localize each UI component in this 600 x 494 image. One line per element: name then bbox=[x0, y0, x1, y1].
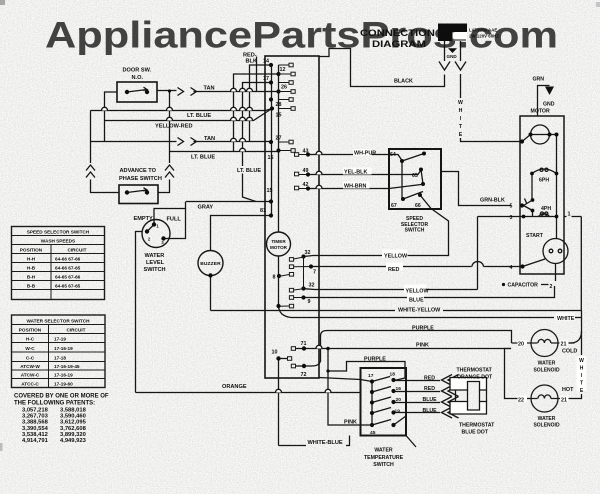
svg-text:21: 21 bbox=[561, 341, 567, 347]
svg-text:CIRCUIT: CIRCUIT bbox=[66, 328, 85, 333]
svg-text:22: 22 bbox=[518, 397, 524, 403]
svg-text:21: 21 bbox=[561, 397, 567, 403]
svg-text:42: 42 bbox=[303, 182, 309, 188]
svg-text:PURPLE: PURPLE bbox=[364, 356, 386, 362]
svg-text:10: 10 bbox=[272, 349, 278, 355]
svg-text:17-16-19: 17-16-19 bbox=[54, 373, 73, 378]
svg-text:3,762,608: 3,762,608 bbox=[60, 426, 87, 432]
svg-text:3,388,568: 3,388,568 bbox=[22, 420, 49, 426]
svg-text:H-H: H-H bbox=[27, 257, 36, 262]
svg-text:H: H bbox=[580, 366, 584, 372]
svg-text:64-66 67-66: 64-66 67-66 bbox=[55, 257, 81, 262]
svg-text:64-66 67-65: 64-66 67-65 bbox=[55, 266, 81, 271]
svg-text:GRAY: GRAY bbox=[198, 205, 214, 211]
svg-text:WASH SPEEDS: WASH SPEEDS bbox=[41, 239, 75, 244]
svg-text:PINK: PINK bbox=[416, 342, 429, 348]
svg-text:RED: RED bbox=[424, 386, 435, 392]
svg-text:3,390,554: 3,390,554 bbox=[22, 426, 49, 432]
svg-text:PHASE SWITCH: PHASE SWITCH bbox=[119, 176, 162, 182]
svg-text:27: 27 bbox=[276, 135, 282, 141]
svg-text:17: 17 bbox=[368, 373, 374, 379]
svg-text:THERMOSTAT: THERMOSTAT bbox=[457, 367, 493, 373]
svg-text:PINK: PINK bbox=[344, 419, 357, 425]
svg-text:RED: RED bbox=[388, 267, 399, 273]
svg-text:BLUE: BLUE bbox=[409, 297, 424, 303]
svg-text:WATER: WATER bbox=[538, 361, 556, 367]
svg-text:3,588,018: 3,588,018 bbox=[60, 408, 87, 414]
svg-text:SWITCH: SWITCH bbox=[405, 228, 425, 234]
svg-text:45: 45 bbox=[370, 430, 376, 436]
svg-text:64-65 67-66: 64-65 67-66 bbox=[55, 275, 81, 280]
svg-text:RED: RED bbox=[424, 375, 435, 381]
svg-text:19: 19 bbox=[395, 408, 401, 414]
svg-text:15: 15 bbox=[268, 155, 274, 161]
svg-text:1: 1 bbox=[568, 211, 571, 217]
svg-text:12: 12 bbox=[280, 67, 286, 73]
svg-text:WH-PUR: WH-PUR bbox=[354, 150, 376, 156]
svg-text:3,057,218: 3,057,218 bbox=[22, 408, 49, 414]
svg-text:32: 32 bbox=[305, 250, 311, 256]
svg-text:FULL: FULL bbox=[167, 216, 182, 222]
svg-text:LT. BLUE: LT. BLUE bbox=[237, 168, 261, 174]
svg-text:WHITE: WHITE bbox=[557, 316, 575, 322]
svg-text:67: 67 bbox=[391, 203, 397, 209]
svg-text:4: 4 bbox=[510, 265, 513, 271]
svg-text:MOTOR: MOTOR bbox=[531, 109, 550, 115]
svg-text:CIRCUIT: CIRCUIT bbox=[67, 248, 86, 253]
svg-text:64: 64 bbox=[390, 152, 396, 158]
svg-text:9: 9 bbox=[308, 299, 311, 305]
svg-text:BLUE: BLUE bbox=[423, 408, 438, 414]
svg-text:COLD: COLD bbox=[562, 348, 577, 354]
svg-text:28: 28 bbox=[276, 102, 282, 108]
svg-text:4PH: 4PH bbox=[541, 206, 551, 212]
svg-text:B-H: B-H bbox=[27, 275, 36, 280]
svg-text:ATCW-C: ATCW-C bbox=[21, 373, 40, 378]
svg-text:B-B: B-B bbox=[27, 284, 36, 289]
svg-text:71: 71 bbox=[301, 341, 307, 347]
svg-text:YELLOW: YELLOW bbox=[406, 288, 430, 294]
svg-text:C-C: C-C bbox=[26, 355, 35, 360]
svg-text:THE FOLLOWING PATENTS:: THE FOLLOWING PATENTS: bbox=[14, 401, 95, 407]
svg-text:5: 5 bbox=[510, 204, 513, 210]
svg-text:4,949,923: 4,949,923 bbox=[60, 438, 87, 444]
svg-text:BLUE DOT: BLUE DOT bbox=[462, 429, 489, 435]
svg-text:ATCW-W: ATCW-W bbox=[20, 364, 40, 369]
svg-text:18: 18 bbox=[390, 372, 396, 378]
svg-text:WHITE-YELLOW: WHITE-YELLOW bbox=[398, 307, 441, 313]
svg-text:26: 26 bbox=[281, 85, 287, 91]
svg-text:SOLENOID: SOLENOID bbox=[533, 423, 560, 429]
svg-text:EMPTY: EMPTY bbox=[134, 216, 154, 222]
svg-text:BUZZER: BUZZER bbox=[200, 261, 221, 267]
svg-text:AppliancePartsPros.com: AppliancePartsPros.com bbox=[45, 15, 558, 56]
svg-text:COVERED BY ONE OR MORE OF: COVERED BY ONE OR MORE OF bbox=[14, 394, 109, 400]
svg-text:START: START bbox=[526, 233, 544, 239]
svg-text:65: 65 bbox=[412, 173, 418, 179]
svg-text:8: 8 bbox=[273, 274, 276, 280]
svg-text:20: 20 bbox=[518, 341, 524, 347]
svg-text:HOT: HOT bbox=[562, 387, 574, 393]
svg-text:3,899,320: 3,899,320 bbox=[60, 432, 86, 438]
svg-text:15: 15 bbox=[276, 113, 282, 119]
svg-text:43: 43 bbox=[303, 148, 309, 154]
svg-text:14: 14 bbox=[263, 59, 269, 65]
svg-text:32: 32 bbox=[309, 283, 315, 289]
svg-text:3,267,703: 3,267,703 bbox=[22, 414, 49, 420]
svg-text:TEMPERATURE: TEMPERATURE bbox=[364, 455, 404, 461]
svg-text:BLACK: BLACK bbox=[394, 78, 413, 84]
svg-text:49: 49 bbox=[303, 168, 309, 174]
svg-text:TIMER: TIMER bbox=[271, 239, 286, 244]
svg-text:SWITCH: SWITCH bbox=[144, 267, 166, 273]
svg-text:7: 7 bbox=[313, 270, 316, 276]
svg-text:H: H bbox=[459, 108, 463, 114]
svg-text:17-19: 17-19 bbox=[54, 337, 66, 342]
svg-text:ORANGE: ORANGE bbox=[222, 384, 247, 390]
svg-text:E: E bbox=[459, 132, 463, 138]
svg-text:H-B: H-B bbox=[27, 266, 36, 271]
svg-text:17-18: 17-18 bbox=[54, 355, 66, 360]
svg-text:YELLOW: YELLOW bbox=[384, 253, 408, 259]
svg-text:YEL-BLK: YEL-BLK bbox=[344, 169, 367, 175]
svg-text:20: 20 bbox=[396, 397, 402, 403]
svg-text:CAPACITOR: CAPACITOR bbox=[508, 283, 539, 289]
svg-text:DOOR SW.: DOOR SW. bbox=[123, 68, 152, 74]
svg-text:TAN: TAN bbox=[204, 136, 215, 142]
svg-text:W: W bbox=[458, 100, 463, 106]
svg-text:66: 66 bbox=[415, 203, 421, 209]
svg-text:6PH: 6PH bbox=[539, 177, 549, 183]
svg-text:3: 3 bbox=[510, 215, 513, 221]
svg-text:16: 16 bbox=[396, 386, 402, 392]
svg-text:64-65 67-65: 64-65 67-65 bbox=[55, 284, 81, 289]
svg-text:GRN-BLK: GRN-BLK bbox=[480, 197, 505, 203]
svg-text:LT. BLUE: LT. BLUE bbox=[191, 155, 215, 161]
svg-text:H-C: H-C bbox=[26, 337, 35, 342]
svg-text:WATER: WATER bbox=[538, 416, 556, 422]
svg-text:WATER SELECTOR SWITCH: WATER SELECTOR SWITCH bbox=[26, 319, 90, 324]
svg-text:3,538,412: 3,538,412 bbox=[22, 432, 48, 438]
svg-text:BLK: BLK bbox=[246, 59, 258, 65]
svg-text:T: T bbox=[580, 381, 583, 387]
svg-text:WATER: WATER bbox=[374, 448, 393, 454]
svg-text:GND: GND bbox=[543, 102, 555, 108]
svg-text:17: 17 bbox=[263, 76, 269, 82]
svg-text:BLUE: BLUE bbox=[423, 397, 438, 403]
svg-text:15: 15 bbox=[267, 188, 273, 194]
svg-text:3,612,095: 3,612,095 bbox=[60, 420, 87, 426]
svg-text:SWITCH: SWITCH bbox=[373, 462, 394, 468]
svg-text:LT. BLUE: LT. BLUE bbox=[187, 113, 211, 119]
svg-text:POSITION: POSITION bbox=[19, 328, 42, 333]
svg-text:LEVEL: LEVEL bbox=[146, 260, 165, 266]
svg-text:WH-BRN: WH-BRN bbox=[344, 183, 367, 189]
svg-text:SPEED SELECTOR SWITCH: SPEED SELECTOR SWITCH bbox=[27, 230, 90, 235]
svg-text:THERMOSTAT: THERMOSTAT bbox=[459, 422, 495, 428]
svg-text:17-19-60: 17-19-60 bbox=[54, 381, 73, 386]
svg-text:ATCC-C: ATCC-C bbox=[21, 381, 39, 386]
svg-text:TAN: TAN bbox=[204, 86, 215, 92]
svg-text:ADVANCE TO: ADVANCE TO bbox=[120, 168, 157, 174]
svg-text:PURPLE: PURPLE bbox=[412, 325, 434, 331]
svg-text:17-16-19: 17-16-19 bbox=[54, 346, 73, 351]
svg-text:MOTOR: MOTOR bbox=[270, 245, 288, 250]
svg-text:WATER: WATER bbox=[145, 253, 165, 259]
svg-text:81: 81 bbox=[260, 208, 266, 214]
svg-text:72: 72 bbox=[301, 372, 307, 378]
svg-text:W-C: W-C bbox=[25, 346, 35, 351]
svg-text:YELLOW-RED: YELLOW-RED bbox=[155, 124, 193, 130]
svg-text:POSITION: POSITION bbox=[20, 248, 43, 253]
svg-text:17-16-19-45: 17-16-19-45 bbox=[54, 364, 80, 369]
svg-text:ORANGE DOT: ORANGE DOT bbox=[457, 374, 493, 380]
svg-text:WHITE-BLUE: WHITE-BLUE bbox=[308, 440, 343, 446]
svg-text:3,590,460: 3,590,460 bbox=[60, 414, 86, 420]
svg-text:W: W bbox=[579, 358, 584, 364]
svg-text:SOLENOID: SOLENOID bbox=[533, 367, 560, 373]
svg-text:2: 2 bbox=[550, 284, 553, 290]
svg-text:4,914,791: 4,914,791 bbox=[22, 438, 49, 444]
svg-text:GRN: GRN bbox=[533, 77, 545, 83]
svg-text:N.O.: N.O. bbox=[132, 75, 144, 81]
